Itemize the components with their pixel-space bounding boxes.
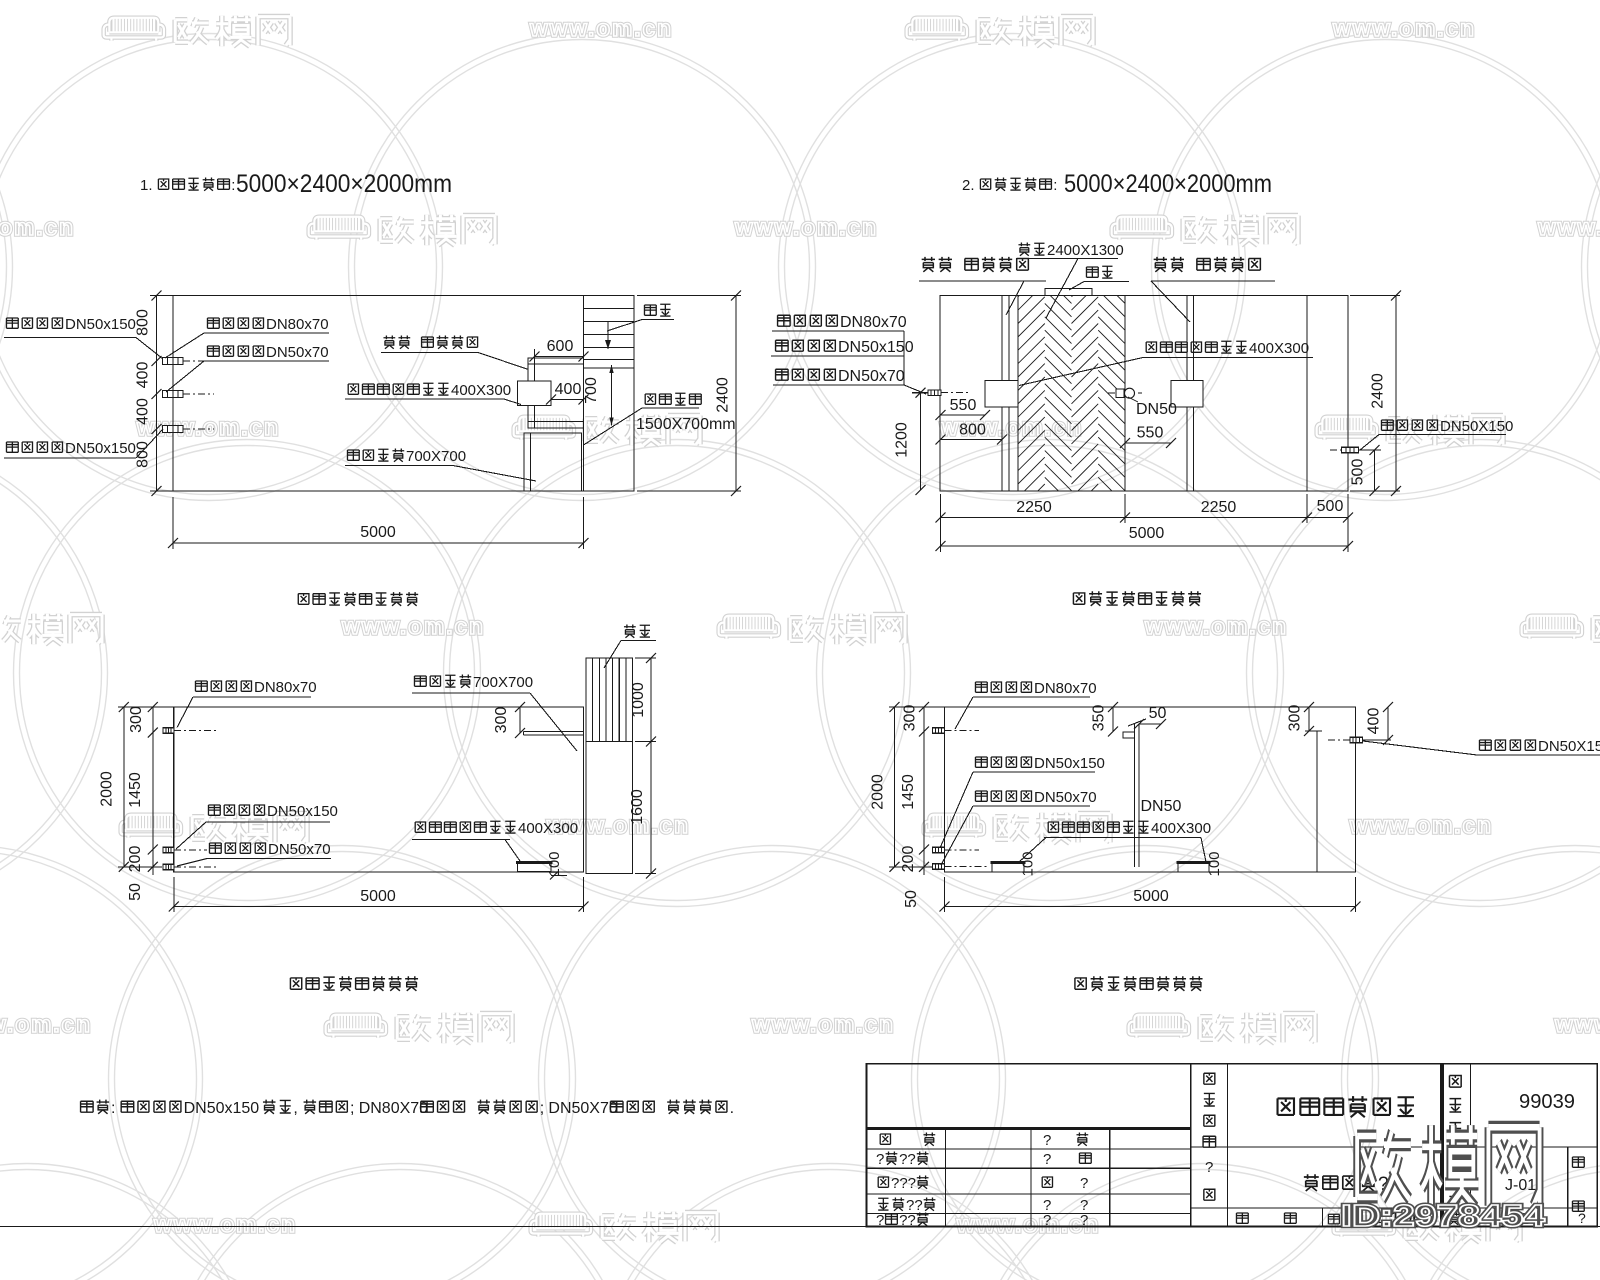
pipe stub DN80x70 (plan A, y=361) — [163, 358, 215, 365]
svg-text:600: 600 — [547, 338, 574, 355]
angle-steel frame (plan A) — [528, 358, 584, 428]
svg-text:550: 550 — [1137, 425, 1164, 442]
svg-text:800: 800 — [135, 309, 152, 336]
grid support rect (plan A) — [524, 433, 582, 491]
svg-text:www.om.cn: www.om.cn — [529, 15, 673, 41]
svg-text:1.: 1. — [140, 177, 153, 194]
cover plate hatch band — [1018, 270, 1125, 531]
pipe stub DN50x150 (section A) — [163, 847, 207, 853]
svg-text:www.om.cn: www.om.cn — [1537, 214, 1600, 240]
svg-text:DN50x150: DN50x150 — [267, 803, 338, 820]
label 预留短管DN80x70 (section A) — [177, 679, 317, 728]
svg-text:DN80x70: DN80x70 — [1034, 680, 1097, 697]
svg-text:400X300: 400X300 — [518, 820, 578, 837]
svg-text:2.: 2. — [962, 177, 975, 194]
title block texts — [876, 1073, 1586, 1229]
svg-text:DN50x70: DN50x70 — [268, 841, 331, 858]
svg-text:1200: 1200 — [894, 422, 911, 458]
label 曝气器底部支座400X300 (plan B) — [1019, 340, 1313, 386]
dim 5000 bottom (section B) — [940, 877, 1361, 912]
pipe stub DN50x150 (section B) — [933, 847, 980, 853]
svg-text::: : — [111, 1100, 115, 1117]
dim 2400 right (plan A) — [637, 291, 741, 497]
svg-text:??: ?? — [899, 1212, 916, 1229]
svg-text:300: 300 — [128, 706, 145, 733]
svg-text:100: 100 — [1020, 851, 1037, 876]
label 曝气器底部支座400X300 (section B) — [1019, 820, 1211, 862]
svg-text:5000×2400×2000mm: 5000×2400×2000mm — [236, 170, 452, 198]
svg-text:DN50: DN50 — [1136, 401, 1177, 418]
left dim chain (section B) — [870, 702, 945, 908]
aerator support 400X300 right (plan B) — [1171, 381, 1203, 408]
svg-text:www.om.cn: www.om.cn — [1554, 1011, 1600, 1037]
svg-text:DN50x150: DN50x150 — [65, 316, 136, 333]
svg-text:www.om.cn: www.om.cn — [136, 414, 280, 440]
caption 接触氧化池平面图 — [1073, 591, 1201, 606]
ladder arrow — [605, 322, 611, 349]
svg-text:2250: 2250 — [1016, 499, 1052, 516]
svg-text:DN50: DN50 — [1141, 798, 1182, 815]
caption 曝气调节池剖面图 — [290, 976, 418, 991]
svg-text:DN50x70: DN50x70 — [838, 368, 905, 385]
svg-text:www.om.cn: www.om.cn — [0, 1011, 92, 1037]
svg-text:DN80x70: DN80x70 — [266, 316, 329, 333]
tank A outline (section) — [174, 707, 584, 872]
svg-text:www.om.cn: www.om.cn — [1332, 15, 1476, 41]
label 爬梯 (plan B) — [1069, 266, 1129, 290]
svg-text:2400X1300: 2400X1300 — [1047, 242, 1124, 259]
dim 350 (section B) — [1091, 702, 1119, 737]
svg-text:350: 350 — [1091, 705, 1108, 732]
svg-text:?: ? — [876, 1212, 884, 1229]
svg-text:400: 400 — [135, 362, 152, 389]
dim 2400 right (plan B) — [1350, 291, 1401, 497]
svg-text:?: ? — [1043, 1212, 1051, 1229]
svg-text:99039: 99039 — [1519, 1091, 1575, 1113]
label 爬梯 (plan A) — [607, 304, 674, 331]
svg-text:50: 50 — [1149, 705, 1167, 722]
dim 300 right inner (section B) — [1287, 702, 1323, 736]
svg-text:???: ??? — [891, 1175, 916, 1192]
svg-text:2000: 2000 — [99, 771, 116, 807]
dim 5000 bottom (plan A) — [168, 497, 589, 549]
svg-text:500: 500 — [1350, 459, 1367, 486]
aerator support right (section B) — [1177, 851, 1224, 876]
label 操作平台 1500X700mm (plan A) — [584, 393, 736, 445]
label 扶栏 (section A) — [604, 625, 656, 668]
svg-text:500: 500 — [1317, 498, 1344, 515]
svg-text:,: , — [293, 1100, 297, 1117]
label 预留短管DN50x150 (section A) — [176, 803, 338, 849]
inner wall line right (section B) — [1316, 731, 1318, 872]
label 格栅支架700X700 (section A) — [412, 674, 577, 751]
dim 5000 bottom (section A) — [169, 877, 589, 912]
svg-text:www.om.cn: www.om.cn — [341, 613, 485, 639]
pipe stub DN50x70 (section A) — [163, 864, 216, 870]
label 预留短管DN50X150 (far right, section B) — [1363, 738, 1600, 755]
svg-text:300: 300 — [493, 707, 510, 734]
svg-text:100: 100 — [1206, 851, 1223, 876]
platform column (section A) — [586, 658, 633, 874]
svg-text:?: ? — [1043, 1151, 1051, 1168]
svg-text:800: 800 — [135, 441, 152, 468]
svg-text:550: 550 — [950, 397, 977, 414]
left pipe labels (plan B) — [772, 314, 907, 331]
svg-text:??: ?? — [899, 1151, 916, 1168]
title: 2.接触氧化池 5000x2400x2000mm — [962, 170, 1272, 198]
svg-text:1450: 1450 — [127, 772, 144, 808]
dim 550 right (plan B) — [1120, 425, 1176, 449]
svg-text:J-01: J-01 — [1505, 1177, 1536, 1194]
svg-text:700X700: 700X700 — [473, 674, 533, 691]
svg-text:200: 200 — [900, 846, 917, 873]
label 格栅支架700X700 (plan A) — [345, 448, 536, 481]
ladder rungs (plan A) — [584, 309, 635, 369]
svg-text:DN50X70: DN50X70 — [548, 1100, 617, 1117]
pool B inner wall lines — [1002, 296, 1307, 492]
tank B outline (section) — [945, 707, 1356, 872]
svg-text:;: ; — [540, 1100, 544, 1117]
dim 500 right vertical (plan B) — [1350, 445, 1382, 496]
dim 600 (plan A) — [530, 338, 589, 364]
pipe stub DN50x150 (plan A, y=429) — [163, 426, 215, 433]
dims 1000/1600 right (section A) — [629, 653, 656, 879]
svg-text:400: 400 — [555, 381, 582, 398]
svg-text:5000: 5000 — [1133, 888, 1169, 905]
bottom sheet line — [0, 1226, 1600, 1228]
aerator support (section A) — [516, 851, 567, 879]
label 预留短管DN80x70 (section B) — [955, 680, 1097, 729]
left dimension chain (plan A) — [135, 291, 174, 497]
label 预留短管DN50x150 (section B) — [940, 755, 1105, 848]
label 预留短管DN50x150 (lower left, plan A) — [4, 429, 163, 458]
title: 1.曝气调节池 5000x2400x2000mm — [140, 170, 452, 198]
pipe stub right (plan B) — [1330, 447, 1359, 453]
svg-text:1450: 1450 — [900, 774, 917, 810]
svg-text:400X300: 400X300 — [451, 382, 511, 399]
svg-text:www.om.cn: www.om.cn — [734, 214, 878, 240]
svg-text:www.om.cn: www.om.cn — [1144, 613, 1288, 639]
label 预留短管DN50x70 (section A) — [177, 841, 331, 866]
svg-text:DN50x150: DN50x150 — [65, 440, 136, 457]
svg-text:400X300: 400X300 — [1151, 820, 1211, 837]
svg-text:2000: 2000 — [870, 774, 887, 810]
label 预留短管DN50x70 (plan A) — [166, 344, 329, 392]
svg-text:ID:2978454: ID:2978454 — [1341, 1198, 1546, 1233]
svg-text:?: ? — [1578, 1210, 1586, 1226]
svg-text:.: . — [730, 1100, 734, 1117]
label 盖板2400X1300 — [1016, 242, 1124, 318]
label 角钢 现场焊接 (left, plan B) — [919, 257, 1046, 315]
svg-text:5000: 5000 — [1129, 525, 1165, 542]
svg-text:800: 800 — [959, 422, 986, 439]
dim 5000 bottom (plan B) — [936, 525, 1354, 551]
pipe stub DN50x70 (section B) — [933, 864, 989, 870]
svg-text:2400: 2400 — [1370, 373, 1387, 409]
svg-text:700: 700 — [583, 377, 600, 404]
label 角钢 现场焊接 (plan A) — [381, 336, 529, 370]
dim 550 left (plan B) — [936, 397, 991, 420]
pipe stub left (plan B) — [928, 390, 968, 396]
svg-text:5000: 5000 — [360, 888, 396, 905]
svg-text:www.om.cn: www.om.cn — [0, 214, 75, 240]
aerator support left (section B) — [991, 851, 1037, 876]
dim 1200 (plan B) — [894, 388, 929, 495]
svg-text:DN80x70: DN80x70 — [254, 679, 317, 696]
svg-text::: : — [231, 177, 235, 194]
bottom dim chain 2250/2250/500 (plan B) — [936, 494, 1354, 552]
svg-text:DN50x150: DN50x150 — [1034, 755, 1105, 772]
left dim chain (section A) — [99, 702, 174, 901]
svg-text:www.om.cn: www.om.cn — [1349, 812, 1493, 838]
grid support shelf (section A) — [524, 732, 584, 736]
svg-text:?: ? — [876, 1151, 884, 1168]
svg-text:400: 400 — [1366, 708, 1383, 735]
svg-text:300: 300 — [1287, 705, 1304, 732]
pool A platform divider line — [583, 296, 585, 492]
svg-text::: : — [1053, 177, 1057, 194]
svg-text:?: ? — [1205, 1159, 1213, 1176]
dim 800 (plan B) — [936, 422, 1008, 445]
svg-text:5000: 5000 — [360, 524, 396, 541]
svg-text:400: 400 — [135, 398, 152, 425]
svg-text:;: ; — [350, 1100, 354, 1117]
aerator support 400X300 (plan A) — [518, 381, 552, 406]
svg-text:100: 100 — [546, 851, 563, 876]
label 预留短管DN80x70 (plan A) — [165, 316, 329, 358]
right pipe stub (section B) — [1328, 737, 1363, 743]
label 预留短管DN50X150 (right, plan B) — [1360, 418, 1513, 450]
svg-text:DN50x70: DN50x70 — [266, 344, 329, 361]
svg-text:1500X700mm: 1500X700mm — [636, 416, 736, 433]
label 角钢 现场焊接 (right, plan B) — [1151, 257, 1275, 322]
label 预留短管DN50x150 (upper left, plan A) — [4, 316, 163, 359]
svg-text:www.om.cn: www.om.cn — [751, 1011, 895, 1037]
central DN50 pipe (section B) — [1123, 719, 1146, 867]
svg-text:2400: 2400 — [715, 377, 732, 413]
aerator support 400X300 left (plan B) — [985, 381, 1018, 408]
svg-text:1000: 1000 — [630, 682, 647, 718]
pool A outline (plan) — [173, 296, 634, 492]
caption 曝气调节池平面图 — [298, 592, 418, 606]
dim 300 at shelf (section A) — [493, 702, 525, 738]
dim 700 (plan A) — [583, 365, 614, 426]
svg-text:DN50X150: DN50X150 — [1538, 738, 1600, 755]
label 曝气器底部支座400X300 (plan A) — [345, 382, 521, 405]
label 预留短管DN50x70 (section B) — [941, 789, 1097, 865]
svg-text:5000×2400×2000mm: 5000×2400×2000mm — [1064, 170, 1272, 198]
svg-text:DN80x70: DN80x70 — [840, 314, 907, 331]
svg-text:DN50x150: DN50x150 — [184, 1100, 260, 1117]
dark watermark 欧模网 ID:2978454 — [1341, 1125, 1546, 1233]
dim 50 (section B) — [1134, 705, 1167, 729]
dim 400 (plan A) — [546, 381, 589, 405]
title block frame — [867, 1064, 1598, 1227]
svg-text:400X300: 400X300 — [1249, 340, 1309, 357]
svg-text:DN50X150: DN50X150 — [1440, 418, 1513, 435]
svg-text:300: 300 — [902, 705, 919, 732]
note text 说明 — [81, 1100, 734, 1117]
svg-text:?: ? — [1043, 1132, 1051, 1149]
DN50 aerator symbol (plan B) — [1108, 388, 1142, 398]
svg-text:700X700: 700X700 — [406, 448, 466, 465]
caption 接触氧化池剖面图 — [1075, 976, 1203, 991]
svg-text:50: 50 — [903, 890, 920, 908]
svg-text:1600: 1600 — [629, 789, 646, 825]
svg-text:DN50x70: DN50x70 — [1034, 789, 1097, 806]
svg-text:50: 50 — [127, 883, 144, 901]
pipe stub DN80x70 (section B) — [933, 728, 980, 734]
svg-text:?: ? — [1080, 1212, 1088, 1229]
svg-text:www.om.cn: www.om.cn — [153, 1211, 297, 1237]
svg-text:DN50x150: DN50x150 — [838, 339, 914, 356]
svg-text:?: ? — [1080, 1175, 1088, 1192]
svg-text:200: 200 — [127, 846, 144, 873]
label 曝气器底部支座400X300 (section A) — [412, 820, 578, 861]
svg-text:2250: 2250 — [1201, 499, 1237, 516]
svg-text:www.om.cn: www.om.cn — [956, 1211, 1100, 1237]
dim 400 right (section B) — [1363, 702, 1394, 745]
pipe stub DN80x70 (section A) — [163, 728, 216, 734]
pipe stub DN50x70 (plan A, y=394) — [163, 391, 215, 398]
label DN50 (section B) — [1141, 798, 1182, 815]
cover plate top tab — [1045, 289, 1092, 296]
label DN50 (plan B) — [1128, 397, 1177, 418]
pool B outline (plan) — [940, 296, 1348, 492]
svg-text:DN80X70: DN80X70 — [359, 1100, 428, 1117]
